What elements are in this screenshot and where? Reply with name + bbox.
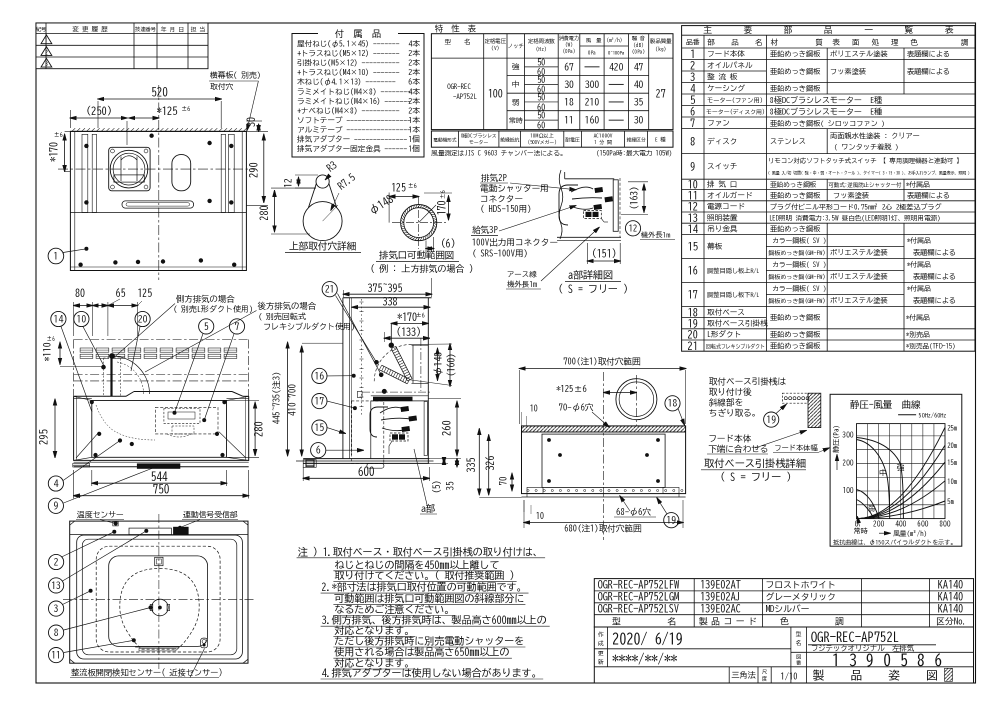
exhaust outlet movable range diagram [367, 182, 473, 274]
svg-text:3: 3 [54, 604, 59, 614]
svg-text:フード本体幅: フード本体幅 [774, 444, 818, 452]
svg-text:表題欄による: 表題欄による [907, 51, 950, 59]
svg-text:AC1000V: AC1000V [594, 133, 613, 139]
svg-text:表題欄による: 表題欄による [907, 192, 950, 200]
svg-text:600: 600 [917, 520, 928, 528]
svg-text:100: 100 [842, 486, 853, 494]
svg-text:(W): (W) [565, 42, 573, 48]
svg-text:( SRS-100V用): ( SRS-100V用) [472, 250, 528, 259]
svg-text:1/10: 1/10 [781, 672, 798, 682]
svg-text:1個: 1個 [408, 145, 420, 153]
svg-text:420: 420 [609, 62, 623, 72]
svg-text:ポリエステル塗装: ポリエステル塗装 [830, 297, 888, 304]
svg-text:9: 9 [54, 501, 59, 511]
svg-text:13: 13 [688, 213, 699, 223]
svg-text:800: 800 [939, 520, 950, 528]
svg-text:±6: ±6 [408, 182, 417, 189]
svg-text:0Pa: 0Pa [588, 50, 596, 56]
svg-text:35: 35 [634, 97, 644, 107]
svg-text:亜鉛めっき鋼板: 亜鉛めっき鋼板 [770, 225, 821, 233]
svg-text:表題欄による: 表題欄による [913, 273, 956, 281]
svg-text:10: 10 [688, 180, 699, 190]
svg-text:3.側方排気、後方排気時は、製品高さ600mm以上の: 3.側方排気、後方排気時は、製品高さ600mm以上の [321, 614, 547, 626]
svg-text:鋼板めっき鋼(GM-FW): 鋼板めっき鋼(GM-FW) [769, 249, 826, 256]
svg-text:ポリエステル塗装: ポリエステル塗装 [830, 51, 888, 58]
svg-text:544: 544 [151, 472, 168, 483]
svg-text:15m: 15m [947, 459, 957, 466]
svg-text:125: 125 [391, 183, 406, 193]
svg-text:1: 1 [54, 251, 59, 261]
svg-text:三角法: 三角法 [731, 670, 756, 680]
svg-text:フロストホワイト: フロストホワイト [766, 580, 836, 590]
svg-text:*付属品: *付属品 [906, 313, 930, 322]
svg-text:ケーシング: ケーシング [707, 84, 745, 92]
svg-text:取り付けてください。( 取付推奨範囲 ): 取り付けてください。( 取付推奨範囲 ) [334, 569, 514, 581]
svg-text:4.排気アダプターは使用しない場合があります。: 4.排気アダプターは使用しない場合があります。 [322, 667, 542, 679]
accessories list box [292, 28, 424, 157]
svg-text:1: 1 [690, 50, 695, 60]
svg-text:オイルパネル: オイルパネル [707, 61, 753, 69]
svg-text:0~100Pa: 0~100Pa [608, 51, 625, 56]
svg-text:25m: 25m [947, 424, 957, 431]
svg-text:木ねじ(φ4.1×13) --------: 木ねじ(φ4.1×13) -------- [296, 78, 396, 86]
svg-text:中: 中 [512, 80, 520, 88]
svg-text:ちぎり取る。: ちぎり取る。 [709, 408, 761, 418]
svg-text:番: 番 [796, 660, 802, 666]
svg-text:50: 50 [537, 76, 545, 85]
svg-text:フッ素塗装: フッ素塗装 [833, 192, 869, 199]
svg-text:スイッチ: スイッチ [707, 162, 738, 170]
svg-text:製品質量: 製品質量 [649, 38, 672, 44]
svg-text:338: 338 [382, 297, 398, 307]
svg-text:100: 100 [488, 89, 503, 99]
svg-text:強: 強 [512, 63, 520, 72]
svg-text:型: 型 [796, 631, 802, 637]
svg-text:カラー鋼板( SV ): カラー鋼板( SV ) [772, 261, 826, 269]
svg-text:17: 17 [315, 397, 325, 407]
svg-text:OGR-REC-AP752LSV: OGR-REC-AP752LSV [598, 604, 680, 614]
svg-text:( HDS-150用): ( HDS-150用) [480, 205, 532, 214]
svg-text:特 性 表: 特 性 表 [434, 25, 476, 33]
svg-text:47: 47 [634, 62, 645, 72]
svg-text:125: 125 [137, 289, 152, 299]
revision table [36, 23, 208, 69]
svg-text:10MΩ以上: 10MΩ以上 [530, 133, 553, 139]
svg-text:260: 260 [440, 420, 452, 436]
front view [39, 287, 355, 530]
svg-text:弱: 弱 [867, 505, 875, 512]
svg-text:6: 6 [690, 105, 695, 117]
svg-text:16: 16 [688, 264, 699, 276]
svg-text:375~395: 375~395 [367, 284, 403, 294]
svg-text:70-φ6穴: 70-φ6穴 [559, 403, 594, 413]
svg-text:65: 65 [116, 287, 126, 299]
svg-text:品番: 品番 [686, 39, 700, 46]
svg-text:尺: 尺 [762, 669, 768, 675]
svg-text:30: 30 [634, 116, 644, 126]
svg-text:モーター: モーター [469, 139, 488, 145]
svg-text:60: 60 [537, 85, 545, 95]
svg-text:( S = フリー ): ( S = フリー ) [558, 284, 628, 295]
svg-text:上部取付穴詳細: 上部取付穴詳細 [289, 241, 356, 252]
svg-text:5m: 5m [947, 498, 954, 505]
svg-text:(500Vメガー): (500Vメガー) [528, 139, 557, 145]
svg-text:フジテックオリジナル 左排気: フジテックオリジナル 左排気 [811, 644, 915, 652]
svg-text:+トラスねじ(M4×10) -------: +トラスねじ(M4×10) ------- [297, 68, 400, 76]
svg-text:ラミメイトねじ(M4×8) --------: ラミメイトねじ(M4×8) -------- [297, 87, 411, 95]
svg-text:10: 10 [536, 512, 544, 520]
svg-text:*170: *170 [49, 142, 59, 162]
svg-text:300: 300 [841, 430, 853, 438]
static pressure / air flow graph [830, 394, 962, 546]
svg-text:プラグ付ビニル平形コード0.75mm² 2心 2極差込プ: プラグ付ビニル平形コード0.75mm² 2心 2極差込プラグ [770, 202, 942, 211]
svg-text:200: 200 [841, 458, 853, 466]
svg-text:60: 60 [537, 120, 545, 130]
svg-text:KA140: KA140 [938, 580, 963, 590]
svg-text:50: 50 [537, 112, 545, 121]
svg-text:2.*部寸法は排気口取付位置の可動範囲です。: 2.*部寸法は排気口取付位置の可動範囲です。 [322, 581, 527, 593]
svg-text:OGR-REC-AP752L: OGR-REC-AP752L [811, 631, 899, 644]
svg-text:取付ベース: 取付ベース [707, 307, 745, 316]
svg-text:型 名: 型 名 [445, 38, 471, 45]
svg-text:280: 280 [254, 421, 264, 437]
svg-text:14: 14 [688, 225, 699, 235]
svg-text:13: 13 [51, 581, 61, 591]
svg-text:(5): (5) [433, 480, 442, 494]
svg-text:9: 9 [690, 162, 695, 172]
svg-text:2本: 2本 [408, 59, 420, 67]
svg-text:ディスク: ディスク [707, 137, 737, 145]
svg-text:常時: 常時 [509, 117, 523, 124]
svg-text:2本: 2本 [408, 106, 420, 114]
svg-text:326: 326 [484, 456, 496, 472]
svg-text:****/**/**: ****/**/** [612, 652, 678, 666]
svg-text:5: 5 [204, 322, 209, 332]
svg-text:LED照明 消費電力:3.5W 昼白色(LED照明1灯、: LED照明 消費電力:3.5W 昼白色(LED照明1灯、照明用電源) [769, 215, 940, 223]
svg-text:100V出力用コネクター: 100V出力用コネクター [472, 238, 558, 248]
svg-text:5: 5 [690, 96, 695, 106]
svg-text:静圧(Pa): 静圧(Pa) [833, 425, 841, 453]
svg-text:亜鉛めっき鋼板: 亜鉛めっき鋼板 [770, 67, 821, 75]
svg-text:亜鉛めっき鋼板: 亜鉛めっき鋼板 [770, 84, 821, 92]
svg-text:電動シャッター用: 電動シャッター用 [480, 184, 549, 194]
svg-text:*付属品: *付属品 [907, 284, 931, 293]
svg-text:295: 295 [39, 429, 49, 445]
svg-text:210: 210 [585, 97, 599, 107]
svg-text:*125±6: *125±6 [556, 384, 587, 394]
svg-text:14: 14 [54, 314, 64, 324]
svg-text:10m: 10m [947, 478, 957, 485]
svg-text:2: 2 [44, 49, 48, 55]
svg-text:50Hz/60Hz: 50Hz/60Hz [919, 411, 948, 418]
svg-text:製品コード: 製品コード [698, 616, 757, 626]
svg-text:8極DCブラシレス: 8極DCブラシレス [461, 133, 497, 139]
svg-text:20: 20 [138, 314, 148, 324]
svg-text:フード本体: フード本体 [708, 434, 751, 444]
svg-text:(dB): (dB) [633, 42, 643, 48]
svg-text:*170: *170 [397, 313, 417, 323]
svg-text:担 当: 担 当 [191, 27, 206, 33]
svg-text:表題欄による: 表題欄による [907, 68, 950, 76]
svg-text:2: 2 [690, 61, 696, 71]
svg-text:機外長1m: 機外長1m [506, 280, 537, 288]
a-part detail drawing [557, 170, 675, 295]
svg-text:8: 8 [54, 628, 59, 638]
svg-text:4: 4 [54, 479, 59, 489]
svg-text:絶縁区分: 絶縁区分 [626, 136, 646, 142]
svg-text:定格電圧: 定格電圧 [485, 38, 507, 44]
svg-text:回転式フレキシブルダクト: 回転式フレキシブルダクト [706, 343, 765, 349]
svg-text:吊り金具: 吊り金具 [707, 225, 738, 233]
svg-text:3: 3 [690, 73, 695, 83]
svg-text:20m: 20m [947, 442, 957, 449]
svg-text:±6: ±6 [416, 312, 425, 319]
svg-text:50: 50 [537, 93, 545, 102]
svg-text:表題欄による: 表題欄による [913, 249, 956, 257]
svg-text:a部: a部 [421, 504, 435, 514]
svg-text:コネクター: コネクター [480, 194, 523, 204]
svg-text:KA140: KA140 [938, 592, 963, 602]
svg-text:幕板: 幕板 [706, 242, 723, 251]
svg-text:亜鉛めっき鋼板: 亜鉛めっき鋼板 [770, 313, 821, 321]
svg-text:φ148: φ148 [434, 352, 444, 376]
svg-text:15: 15 [315, 423, 325, 433]
svg-text:40: 40 [634, 80, 644, 90]
svg-text:( 別売L形ダクト使用): ( 別売L形ダクト使用) [173, 304, 253, 314]
svg-text:2: 2 [54, 557, 59, 567]
rear view [467, 357, 686, 541]
svg-text:1個: 1個 [408, 135, 420, 143]
svg-text:カラー鋼板( SV ): カラー鋼板( SV ) [772, 285, 826, 293]
svg-text:風 量 (m³/h): 風 量 (m³/h) [585, 37, 622, 43]
svg-text:取付ベース引掛桟は: 取付ベース引掛桟は [708, 377, 787, 387]
svg-text:KA140: KA140 [938, 604, 963, 614]
svg-text:排気アダプター --------------: 排気アダプター -------------- [297, 134, 407, 143]
svg-text:鋼板めっき鋼(GM-FW): 鋼板めっき鋼(GM-FW) [769, 273, 826, 280]
svg-text:*付属品: *付属品 [907, 260, 931, 269]
svg-text:排気2P: 排気2P [481, 173, 507, 183]
svg-text:静圧-風量 曲線: 静圧-風量 曲線 [850, 399, 921, 410]
svg-text:50: 50 [537, 58, 545, 67]
svg-text:ノッチ: ノッチ [508, 43, 524, 49]
svg-text:12: 12 [688, 202, 699, 212]
svg-text:15: 15 [688, 242, 699, 252]
svg-text:ステンレス: ステンレス [770, 138, 806, 145]
svg-text:11: 11 [51, 651, 61, 661]
svg-text:対応となります。: 対応となります。 [334, 658, 414, 669]
svg-text:風量測定はJIS C 9603 チャンバー法による。: 風量測定はJIS C 9603 チャンバー法による。 [430, 150, 566, 158]
top mounting hole detail (keyhole) [260, 160, 362, 253]
title block [594, 579, 973, 683]
svg-text:カラー鋼板( SV ): カラー鋼板( SV ) [772, 237, 826, 245]
side view [272, 278, 462, 514]
svg-text:MDシルバー: MDシルバー [766, 604, 810, 614]
svg-text:17: 17 [688, 290, 699, 300]
svg-text:18: 18 [564, 97, 574, 107]
svg-text:付 属 品: 付 属 品 [334, 28, 382, 39]
svg-text:機外長1m: 機外長1m [640, 232, 670, 239]
svg-text:+トラスねじ(M5×12) -------: +トラスねじ(M5×12) ------- [297, 49, 400, 57]
svg-text:4本: 4本 [408, 87, 420, 95]
svg-text:*付属品: *付属品 [907, 236, 931, 245]
svg-text:ただし後方排気時に別売電動シャッターを: ただし後方排気時に別売電動シャッターを [334, 635, 524, 647]
svg-text:アース線: アース線 [507, 270, 537, 278]
svg-text:6本: 6本 [408, 77, 420, 86]
svg-text:19: 19 [766, 415, 776, 425]
svg-text:±6: ±6 [47, 336, 56, 342]
svg-text:モーター(ファン用): モーター(ファン用) [707, 97, 763, 104]
svg-text:4: 4 [690, 84, 695, 94]
svg-text:電源コード: 電源コード [707, 202, 745, 210]
svg-text:520: 520 [151, 87, 168, 98]
svg-text:20: 20 [688, 330, 699, 340]
svg-text:OGR-REC-AP752LGM: OGR-REC-AP752LGM [598, 592, 680, 602]
svg-text:290: 290 [249, 162, 259, 178]
svg-text:更: 更 [598, 651, 604, 657]
svg-text:排 気 口: 排 気 口 [707, 180, 737, 188]
svg-text:27: 27 [656, 89, 667, 99]
svg-text:680(注1)取付穴範囲: 680(注1)取付穴範囲 [564, 524, 641, 534]
svg-text:-AP752L: -AP752L [453, 93, 477, 100]
svg-text:300: 300 [585, 80, 599, 90]
svg-text:7: 7 [235, 322, 240, 332]
svg-text:70: 70 [500, 477, 509, 486]
svg-text:139E02AT: 139E02AT [700, 580, 741, 590]
svg-text:8極DCブラシレスモーター E種: 8極DCブラシレスモーター E種 [770, 95, 883, 104]
svg-text:ポリエステル塗装: ポリエステル塗装 [830, 249, 888, 256]
svg-text:排気アダプター固定金具 ------: 排気アダプター固定金具 ------ [297, 144, 407, 154]
svg-text:60: 60 [537, 102, 545, 112]
svg-text:3: 3 [45, 61, 48, 67]
svg-text:調整目隠し板下R/L: 調整目隠し板下R/L [707, 291, 760, 298]
svg-text:19: 19 [688, 319, 699, 329]
svg-text:取付穴: 取付穴 [210, 82, 234, 91]
svg-text:ソフトテープ -----------------: ソフトテープ ----------------- [297, 116, 411, 124]
svg-text:取付ベース引掛桟詳細: 取付ベース引掛桟詳細 [704, 457, 806, 469]
svg-text:使用される場合は製品高さ650mm以上の: 使用される場合は製品高さ650mm以上の [333, 646, 509, 658]
svg-text:8極DCブラシレスモーター E種: 8極DCブラシレスモーター E種 [770, 106, 883, 115]
svg-text:鋼板めっき鋼(GM-FW): 鋼板めっき鋼(GM-FW) [769, 297, 826, 304]
svg-text:35: 35 [447, 482, 456, 491]
svg-text:11: 11 [564, 116, 574, 126]
svg-text:強: 強 [897, 464, 905, 473]
notes [297, 545, 550, 679]
svg-text:±6: ±6 [54, 131, 63, 138]
svg-text:電動機形式: 電動機形式 [433, 136, 456, 142]
svg-text:(V): (V) [491, 45, 499, 51]
svg-text:1本: 1本 [408, 116, 420, 124]
svg-text:2本: 2本 [408, 49, 420, 57]
svg-text:10: 10 [77, 314, 87, 324]
svg-text:( 風量 入/切 切替( 強・中・弱・オート・クール )、タ: ( 風量 入/切 切替( 強・中・弱・オート・クール )、タイマー( 3・15・… [768, 170, 970, 176]
svg-text:成: 成 [597, 641, 604, 648]
svg-text:4本: 4本 [408, 40, 420, 48]
svg-text:(Hz): (Hz) [536, 46, 547, 52]
svg-text:可動範囲は排気口可動範囲図の斜線部分に: 可動範囲は排気口可動範囲図の斜線部分に [334, 592, 524, 604]
svg-text:E 種: E 種 [655, 136, 666, 142]
svg-text:作: 作 [598, 632, 604, 638]
svg-text:2020/ 6/19: 2020/ 6/19 [612, 632, 683, 646]
svg-text:中: 中 [879, 468, 887, 476]
svg-text:紀号: 紀号 [36, 26, 46, 32]
svg-text:OGR-REC: OGR-REC [447, 83, 471, 90]
svg-text:(0Pa): (0Pa) [632, 49, 645, 55]
svg-text:風量(m³/h): 風量(m³/h) [893, 530, 927, 538]
svg-text:(kg): (kg) [655, 46, 666, 52]
svg-text:斜線部を: 斜線部を [708, 398, 743, 408]
svg-text:オイルガード: オイルガード [707, 191, 753, 199]
svg-text:139E02AJ: 139E02AJ [700, 592, 741, 602]
svg-text:騒 音: 騒 音 [631, 35, 645, 41]
svg-text:可動式:逆風防止シャッター付: 可動式:逆風防止シャッター付 [829, 181, 902, 189]
svg-text:7: 7 [690, 119, 696, 129]
svg-text:68-φ6穴: 68-φ6穴 [616, 507, 651, 517]
svg-text:80: 80 [75, 289, 85, 299]
svg-text:(151): (151) [592, 248, 617, 259]
svg-text:照明装置: 照明装置 [706, 213, 738, 222]
svg-text:抵抗曲線は、φ150スパイラルダクトを示す。: 抵抗曲線は、φ150スパイラルダクトを示す。 [832, 539, 956, 546]
svg-text:耐電圧: 耐電圧 [565, 137, 580, 142]
bottom view [49, 514, 255, 678]
svg-text:引掛ねじ(M5×12) ----------: 引掛ねじ(M5×12) ---------- [297, 59, 400, 67]
svg-text:19: 19 [667, 516, 677, 526]
svg-text:グレーメタリック: グレーメタリック [766, 592, 836, 602]
svg-text:( S = フリー ): ( S = フリー ) [720, 472, 791, 483]
svg-text:側方排気の場合: 側方排気の場合 [176, 294, 235, 304]
svg-text:400: 400 [895, 520, 906, 528]
svg-text:8: 8 [690, 137, 695, 147]
svg-text:12: 12 [629, 224, 638, 233]
svg-text:0: 0 [855, 520, 859, 528]
svg-text:亜鉛めっき鋼板: 亜鉛めっき鋼板 [770, 191, 821, 199]
svg-text:横幕板( 別売): 横幕板( 別売) [209, 71, 261, 80]
svg-text:170: 170 [437, 201, 447, 216]
svg-text:+ナベねじ(M4×8) ----------: +ナベねじ(M4×8) ---------- [297, 106, 400, 114]
svg-text:700(注1)取付穴範囲: 700(注1)取付穴範囲 [563, 357, 640, 367]
svg-text:消費電力: 消費電力 [558, 36, 579, 41]
svg-text:取付ベース引掛桟: 取付ベース引掛桟 [707, 318, 768, 327]
top view drawing [48, 71, 268, 280]
svg-text:注 ) 1.取付ベース・取付ベース引掛桟の取り付けは、: 注 ) 1.取付ベース・取付ベース引掛桟の取り付けは、 [298, 545, 543, 557]
svg-text:フード本体: フード本体 [707, 49, 745, 58]
svg-text:(133): (133) [396, 326, 421, 337]
svg-text:*125: *125 [157, 107, 178, 117]
svg-text:335: 335 [467, 458, 477, 474]
svg-text:整 流 板: 整 流 板 [706, 73, 738, 82]
svg-text:12: 12 [284, 178, 294, 188]
svg-text:温度センサー: 温度センサー [77, 511, 124, 519]
svg-text:調整目隠し板上R/L: 調整目隠し板上R/L [707, 267, 760, 274]
svg-text:11: 11 [688, 191, 699, 201]
svg-text:年 月 日: 年 月 日 [161, 26, 184, 33]
svg-text:1 分 間: 1 分 間 [594, 139, 612, 145]
svg-text:定格周波数: 定格周波数 [528, 38, 556, 44]
svg-text:(150Pa時:最大電力 105W): (150Pa時:最大電力 105W) [596, 150, 672, 158]
svg-text:21: 21 [325, 285, 335, 295]
connector labels [471, 173, 599, 289]
svg-text:21: 21 [688, 341, 699, 351]
svg-text:18: 18 [688, 308, 699, 318]
svg-text:亜鉛めっき鋼板: 亜鉛めっき鋼板 [770, 181, 817, 188]
svg-text:a部詳細図: a部詳細図 [568, 270, 613, 281]
svg-text:新: 新 [598, 659, 604, 665]
svg-text:後方排気の場合: 後方排気の場合 [258, 301, 317, 311]
svg-text:表題欄による: 表題欄による [913, 297, 956, 305]
svg-text:200: 200 [872, 520, 884, 528]
svg-text:常時: 常時 [854, 528, 868, 535]
main parts list table [682, 25, 975, 352]
svg-text:屋付ねじ(φ5.1×45) -------: 屋付ねじ(φ5.1×45) ------- [297, 39, 400, 49]
